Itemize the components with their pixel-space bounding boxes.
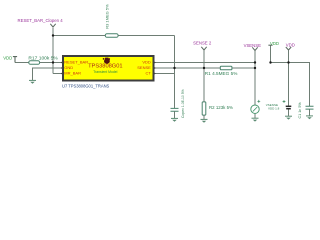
ground left [29, 80, 36, 83]
svg-text:VDD: VDD [286, 43, 295, 48]
svg-text:GND: GND [64, 65, 73, 70]
connector RESET_BAR_Clopen [50, 24, 55, 27]
wire VDD T stem [270, 45, 272, 62]
svg-text:R3 1MEG 5%: R3 1MEG 5% [105, 4, 110, 29]
wire C1 to ground [309, 109, 311, 116]
resistor R3 [105, 34, 118, 38]
svg-text:TPS3808G01: TPS3808G01 [88, 64, 122, 70]
resistor R2 [202, 102, 206, 115]
pin arrow SENSE [153, 67, 155, 70]
ground R2 [201, 119, 208, 122]
power VDD right [268, 44, 272, 46]
pin arrow RESET_BAR [61, 61, 63, 64]
ground C1 [306, 116, 313, 119]
wire VDD2 stem battery [288, 50, 290, 106]
svg-text:VDD 1.8: VDD 1.8 [268, 107, 280, 111]
wire CT stub [155, 73, 175, 75]
connector VDD right [286, 47, 291, 50]
resistor R17 [29, 61, 40, 65]
svg-text:VDD: VDD [3, 55, 12, 60]
ground Copen [171, 118, 178, 121]
pin arrow VDD [153, 61, 155, 64]
svg-text:C1 1n 5%: C1 1n 5% [298, 102, 302, 119]
wire VDD pin row [155, 62, 256, 64]
battery VDD 1.8 [286, 105, 292, 107]
connector VSENSE [252, 47, 257, 50]
wire RESET vertical [52, 28, 54, 74]
svg-text:R2 123k 5%: R2 123k 5% [209, 105, 233, 110]
junction RESET_BAR pin wire [52, 61, 54, 63]
junction VDD rail at battery [287, 61, 289, 63]
capacitor Copen [171, 108, 179, 111]
svg-text:VSENSE: VSENSE [244, 43, 262, 48]
svg-text:RESET_BAR_Clopen 4: RESET_BAR_Clopen 4 [18, 18, 64, 23]
svg-text:VDD: VDD [142, 59, 151, 64]
capacitor C1 [306, 106, 314, 109]
wire MR_BAR stub [53, 73, 62, 75]
wire R2 to ground [203, 115, 205, 119]
svg-text:VDD: VDD [270, 41, 279, 46]
ground battery [285, 116, 292, 119]
resistor R1 [220, 66, 232, 70]
svg-text:MR_BAR: MR_BAR [64, 70, 81, 75]
TI logo [103, 58, 110, 64]
op-amp U7 TPS3808G01 box [63, 56, 154, 81]
svg-text:CT: CT [145, 70, 151, 75]
junction VSENSE at SENSE wire [254, 67, 256, 69]
svg-text:Transient Model: Transient Model [93, 70, 117, 74]
svg-text:RESET_BAR: RESET_BAR [64, 59, 88, 64]
wire VSENSE stem [254, 51, 256, 105]
pin arrow MR_BAR [61, 72, 63, 75]
wire VDD rail to C1 [271, 63, 310, 107]
junction SENSE net at vertical A [173, 67, 175, 69]
svg-text:SENSE 2: SENSE 2 [193, 40, 212, 45]
junction RESET node at top bus [52, 34, 54, 36]
wire GND pin to ground [33, 68, 63, 80]
pin arrow GND [61, 67, 63, 70]
junction VDD rail at power tap [269, 61, 271, 63]
wire battery to ground [288, 109, 290, 116]
wire SENSE2 stem [203, 50, 205, 68]
svg-text:U7 TPS3808G01_TRANS: U7 TPS3808G01_TRANS [62, 83, 110, 88]
wire SENSE row [155, 67, 256, 69]
power VDD left [13, 57, 17, 63]
junction SENSE net at R2 [203, 67, 205, 69]
wire top bus [53, 35, 175, 37]
connector SENSE 2 [201, 47, 206, 50]
pin arrow CT [153, 72, 155, 75]
wire VSENSE to ground [254, 113, 256, 118]
svg-text:R17 100k 5%: R17 100k 5% [28, 55, 58, 61]
junction VSENSE at VDD pin wire [254, 61, 256, 63]
svg-text:R1 4.5MEG 5%: R1 4.5MEG 5% [205, 71, 238, 76]
wire vertical A to Copen [174, 36, 176, 109]
source VSENSE [251, 105, 259, 113]
wire R2 drop [203, 68, 205, 102]
ground VSENSE [252, 118, 259, 121]
svg-text:Copen 1.0E-10 5%: Copen 1.0E-10 5% [181, 89, 185, 118]
wire VDD to RESET_BAR pin [15, 62, 62, 64]
svg-text:SENSE: SENSE [137, 65, 151, 70]
